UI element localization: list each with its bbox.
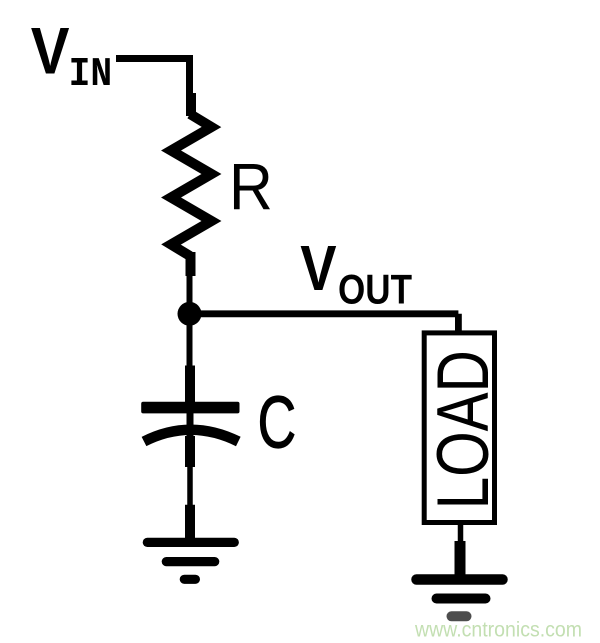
ground symbol under capacitor: bar 1 bbox=[147, 538, 234, 547]
svg-text:www.cntronics.com: www.cntronics.com bbox=[414, 619, 582, 642]
wire below load box bbox=[458, 523, 464, 546]
capacitor top lead stub bbox=[185, 366, 195, 404]
svg-text:V: V bbox=[300, 232, 337, 304]
svg-text:LOAD: LOAD bbox=[423, 350, 504, 509]
ground symbol under load: bar 2 bbox=[437, 594, 486, 604]
resistor R top lead stub bbox=[186, 93, 196, 116]
capacitor C top plate bbox=[141, 402, 239, 414]
resistor R zigzag body bbox=[171, 114, 212, 256]
svg-text:IN: IN bbox=[69, 51, 113, 98]
node junction dot bbox=[178, 302, 202, 326]
capacitor C center stub through plates bbox=[187, 413, 194, 438]
svg-text:R: R bbox=[229, 151, 273, 224]
wire node to capacitor bbox=[187, 320, 193, 370]
ground symbol under load: bar 1 bbox=[417, 574, 503, 585]
wire node to load bbox=[190, 314, 458, 334]
wire capacitor to ground bbox=[187, 466, 193, 506]
load box bbox=[424, 333, 494, 523]
svg-text:OUT: OUT bbox=[338, 265, 412, 312]
capacitor ground lead stub bbox=[185, 505, 195, 540]
label VIN bbox=[31, 15, 112, 98]
ground symbol under capacitor: bar 2 bbox=[166, 557, 214, 566]
capacitor bottom lead stub bbox=[185, 436, 195, 467]
wire resistor to node bbox=[187, 274, 193, 305]
svg-text:V: V bbox=[31, 15, 70, 88]
ground symbol under capacitor: bar 3 bbox=[184, 575, 195, 584]
wire from VIN to resistor bbox=[116, 55, 190, 100]
ground symbol under load: bar 3 (gray) bbox=[452, 611, 467, 621]
load ground lead stub bbox=[455, 541, 466, 578]
label VOUT bbox=[300, 232, 412, 312]
svg-text:C: C bbox=[258, 381, 296, 463]
capacitor C bottom plate (curved) bbox=[144, 430, 238, 442]
resistor R bottom lead stub bbox=[186, 252, 196, 276]
